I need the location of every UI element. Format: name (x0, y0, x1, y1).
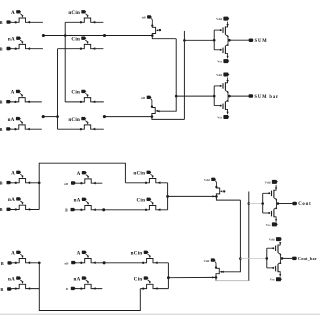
inverter U2 SUM_bar Vdd port (223, 73, 228, 77)
input port nB for M21 (71, 261, 75, 264)
svg-text:nA: nA (8, 276, 15, 282)
svg-text:Cout: Cout (298, 202, 311, 207)
wire V3 (Cout_bar feed) (223, 200, 241, 272)
inverter U1 SUM output port SUM (228, 39, 231, 42)
inverter U1 SUM Vdd port (223, 17, 228, 21)
svg-text:Vss: Vss (270, 278, 276, 282)
svg-text:nCin: nCin (68, 117, 80, 123)
transistor M10 vertical (sum stage) (147, 96, 151, 99)
wire V4 (Cout feed) (248, 192, 250, 282)
inverter U4 Cout_bar Vdd port (276, 237, 281, 241)
svg-text:B: B (0, 181, 3, 186)
gate dot M9 (159, 29, 161, 31)
svg-text:nA: nA (8, 36, 15, 42)
gate dot M17 (223, 190, 225, 192)
svg-text:B: B (0, 100, 2, 105)
transistor M5 gate A (10, 98, 41, 102)
svg-text:nCin: nCin (68, 10, 80, 16)
svg-text:SUM: SUM (255, 39, 268, 44)
svg-text:Vdd: Vdd (269, 238, 275, 242)
svg-text:Vss: Vss (217, 115, 223, 119)
input port B (Cout row1, cut label) (7, 181, 11, 184)
svg-text:Vss: Vss (217, 60, 223, 64)
transistor M24 gate Cin (Cout_bar) (140, 284, 168, 288)
inverter U4 Cout_bar output port Cout_bar (281, 257, 284, 260)
wire W4 to M17 (168, 195, 217, 197)
inverter U1 SUM Vss port (223, 59, 228, 63)
transistor M8 gate nCin (row4) (58, 125, 104, 129)
node n1 dot and wire W1 (42, 34, 45, 37)
wire SUMbar inverter input (176, 95, 214, 97)
svg-text:Cin: Cin (137, 198, 146, 204)
svg-text:A: A (11, 251, 15, 257)
block2 output merge vertical (167, 263, 169, 289)
inverter U2 SUM_bar output port SUM bar (228, 95, 231, 98)
svg-text:nA: nA (74, 198, 81, 204)
svg-text:Cin: Cin (134, 276, 143, 282)
transistor M11 gate A (11, 179, 40, 183)
inverter U4 Cout_bar (266, 257, 269, 260)
svg-text:Vss: Vss (266, 223, 272, 227)
M9 output elbow (151, 34, 154, 37)
transistor M13 gate A (75, 179, 102, 183)
transistor M7 gate Cin (row3) (65, 98, 104, 102)
input port B (row3, cut label) (6, 100, 10, 103)
svg-text:SUM bar: SUM bar (254, 95, 279, 100)
svg-text:B: B (0, 46, 3, 51)
node n4 dot + row2 wire (102, 208, 105, 211)
svg-text:nCin: nCin (131, 251, 143, 257)
svg-text:nA: nA (8, 197, 15, 203)
transistor M4 gate Cin (58, 44, 104, 48)
wire V2 (183, 31, 185, 120)
svg-text:B: B (0, 127, 2, 132)
svg-text:Vdd: Vdd (216, 73, 222, 77)
faint connector M18 to V4 (216, 280, 249, 282)
transistor M16 gate Cin (Cout) (140, 206, 168, 210)
svg-text:A: A (11, 90, 15, 96)
inverter U4 Cout_bar Vss port (276, 277, 281, 281)
input port B for M22 (71, 287, 75, 290)
input port B (row5, cut label) (8, 261, 12, 264)
transistor M20 gate nA (11, 284, 39, 288)
block1 output merge vertical (167, 183, 169, 210)
transistor M15 gate nCin (Cout) (125, 179, 167, 183)
svg-text:B: B (0, 20, 3, 25)
M10 output elbow (152, 117, 185, 120)
wire V1 (159, 39, 176, 112)
svg-text:A: A (77, 251, 81, 257)
block2 U-route wire (38, 262, 41, 265)
input port B for M14 (71, 208, 75, 211)
input port nB (row6, cut label) (7, 287, 11, 290)
node n2 wire left (42, 115, 45, 118)
transistor M12 gate nA (11, 205, 40, 209)
svg-text:Cout_bar: Cout_bar (298, 256, 317, 261)
transistor M18 vertical keeper (Cout_bar) (211, 258, 215, 261)
wire x65 vertical (64, 22, 66, 102)
svg-text:B: B (0, 207, 3, 212)
transistor M22 gate nA (75, 284, 102, 288)
transistor M6 gate nA (10, 125, 41, 129)
inverter U3 Cout Vss port (272, 222, 277, 226)
svg-text:B: B (1, 261, 4, 266)
inverter U1 SUM (213, 39, 216, 42)
transistor M1 gate A (11, 18, 43, 22)
transistor M2 gate nA (11, 44, 43, 48)
svg-text:A: A (11, 171, 15, 177)
input port nB (row2, cut label) (7, 47, 11, 50)
transistor M19 gate A (12, 259, 40, 263)
inverter U2 SUM_bar (213, 95, 216, 98)
svg-text:Cin: Cin (71, 36, 80, 42)
svg-text:Vdd: Vdd (265, 180, 271, 184)
M17 output elbow (216, 196, 240, 200)
input port nB for M13 (71, 181, 75, 184)
inverter U3 Cout Vdd port (272, 180, 277, 184)
svg-text:A: A (11, 10, 15, 16)
svg-text:A: A (77, 171, 81, 177)
faint connector Cout input (249, 203, 263, 205)
inverter U3 Cout output port Cout (277, 202, 280, 205)
M18 bottom tail (215, 277, 217, 280)
wire W5 block2 output to M18 (168, 276, 216, 278)
svg-text:Cin: Cin (71, 90, 80, 96)
inverter U3 Cout (261, 202, 264, 205)
transistor M23 gate nCin (Cout_bar) (144, 259, 168, 263)
input port nB (row4, cut label) (6, 127, 10, 130)
svg-text:Vdd: Vdd (203, 259, 209, 263)
transistor M9 vertical (sum stage) (147, 15, 151, 18)
transistor M3 gate nCin (65, 18, 103, 22)
input port nB (Cout row2, cut label) (7, 208, 11, 211)
svg-text:Vdd: Vdd (204, 178, 210, 182)
faint connector Cout_bar input (240, 258, 266, 260)
transistor M14 gate nA (75, 206, 103, 210)
svg-text:nA: nA (8, 117, 15, 123)
svg-text:nCin: nCin (133, 171, 145, 177)
wire SUM inverter input (184, 39, 214, 41)
svg-text:nA: nA (73, 276, 80, 282)
svg-text:Vdd: Vdd (216, 17, 222, 21)
node n5 dot + row5 wire (103, 261, 106, 264)
svg-text:B: B (0, 287, 3, 292)
transistor M17 vertical keeper (Cout) (211, 178, 215, 181)
bottom edge hairline (0, 313, 320, 315)
inverter U2 SUM_bar Vss port (223, 115, 228, 119)
input port B (row1, cut label) (7, 20, 11, 23)
node n3 wire to M10 (103, 115, 106, 118)
transistor M21 gate A (75, 259, 103, 263)
block1 merge + route-over wire (38, 182, 41, 185)
wire x57 vertical (57, 49, 59, 130)
